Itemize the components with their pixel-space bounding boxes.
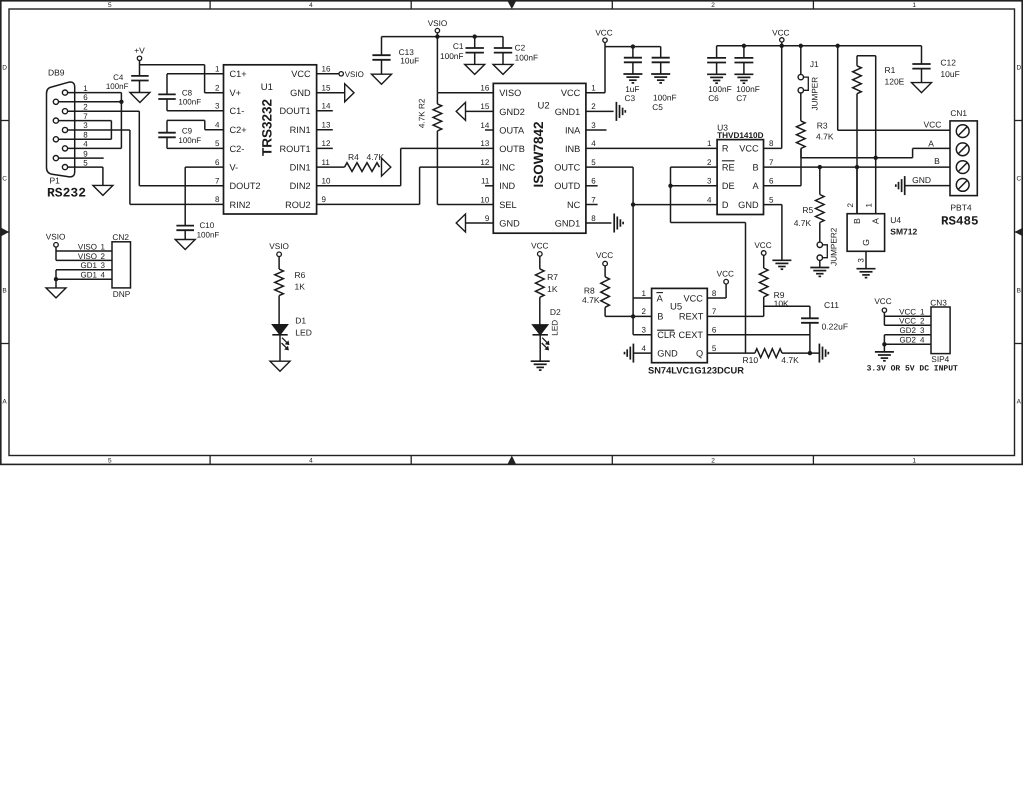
- svg-text:RS232: RS232: [47, 186, 86, 201]
- svg-text:VCC: VCC: [754, 241, 771, 250]
- svg-text:10: 10: [322, 177, 331, 186]
- svg-text:A: A: [657, 293, 664, 303]
- svg-text:VISO: VISO: [78, 242, 97, 251]
- svg-text:Q: Q: [696, 348, 703, 358]
- svg-text:VSIO: VSIO: [428, 19, 448, 28]
- svg-text:D1: D1: [295, 315, 306, 325]
- svg-text:3: 3: [707, 177, 712, 186]
- svg-text:C2+: C2+: [230, 125, 247, 135]
- svg-text:D2: D2: [550, 307, 561, 317]
- svg-text:VCC: VCC: [772, 28, 789, 37]
- svg-text:2: 2: [101, 252, 106, 261]
- svg-text:INA: INA: [565, 125, 581, 135]
- svg-text:SN74LVC1G123DCUR: SN74LVC1G123DCUR: [648, 365, 744, 375]
- svg-text:4: 4: [309, 458, 313, 465]
- svg-text:1: 1: [920, 308, 925, 317]
- svg-text:1: 1: [83, 84, 88, 93]
- svg-text:PBT4: PBT4: [950, 203, 972, 213]
- svg-text:7: 7: [769, 158, 774, 167]
- svg-text:D: D: [2, 64, 7, 71]
- svg-text:GND: GND: [499, 218, 520, 228]
- svg-text:C4: C4: [113, 73, 124, 82]
- svg-text:16: 16: [322, 65, 331, 74]
- svg-text:GD1: GD1: [81, 271, 98, 280]
- svg-text:RS485: RS485: [941, 215, 979, 229]
- svg-text:G: G: [861, 239, 871, 246]
- svg-text:12: 12: [480, 158, 489, 167]
- svg-text:GD2: GD2: [900, 336, 917, 345]
- svg-text:SEL: SEL: [499, 200, 516, 210]
- svg-text:5: 5: [83, 158, 88, 167]
- svg-text:14: 14: [480, 121, 489, 130]
- svg-text:C12: C12: [940, 58, 956, 68]
- svg-text:U2: U2: [538, 101, 550, 112]
- svg-text:A: A: [928, 139, 934, 149]
- svg-text:ISOW7842: ISOW7842: [531, 121, 546, 187]
- svg-text:8: 8: [83, 131, 88, 140]
- svg-text:R1: R1: [885, 65, 896, 75]
- svg-text:GD1: GD1: [81, 261, 98, 270]
- svg-text:V-: V-: [230, 163, 239, 173]
- svg-text:ROUT1: ROUT1: [279, 144, 310, 154]
- svg-text:P1: P1: [50, 176, 61, 186]
- svg-text:C10: C10: [200, 221, 215, 230]
- svg-text:A: A: [1017, 398, 1022, 405]
- svg-text:12: 12: [322, 139, 331, 148]
- svg-text:4: 4: [215, 121, 220, 130]
- svg-text:3: 3: [857, 258, 866, 263]
- svg-text:C1: C1: [453, 41, 464, 51]
- svg-text:16: 16: [480, 84, 489, 93]
- svg-text:GND2: GND2: [499, 107, 525, 117]
- svg-text:7: 7: [215, 177, 220, 186]
- svg-text:REXT: REXT: [679, 312, 704, 322]
- svg-text:JUMPER2: JUMPER2: [830, 227, 839, 266]
- svg-text:U1: U1: [261, 82, 273, 93]
- svg-text:2: 2: [711, 458, 715, 465]
- svg-text:C5: C5: [652, 102, 663, 112]
- svg-text:100nF: 100nF: [440, 51, 464, 61]
- svg-text:A: A: [2, 398, 7, 405]
- svg-text:VCC: VCC: [291, 69, 311, 79]
- svg-text:RE: RE: [722, 162, 735, 172]
- svg-text:4: 4: [309, 2, 313, 9]
- svg-text:2: 2: [591, 102, 596, 111]
- svg-text:B: B: [1017, 287, 1021, 294]
- svg-text:U4: U4: [890, 215, 901, 225]
- svg-text:CN1: CN1: [950, 108, 967, 118]
- svg-text:0.22uF: 0.22uF: [822, 322, 848, 332]
- svg-text:1: 1: [707, 139, 712, 148]
- svg-text:1K: 1K: [547, 284, 558, 294]
- svg-text:14: 14: [322, 102, 331, 111]
- svg-text:VCC: VCC: [595, 29, 612, 38]
- svg-text:THVD1410D: THVD1410D: [717, 131, 764, 140]
- svg-text:10uF: 10uF: [940, 69, 959, 79]
- svg-text:2: 2: [642, 307, 647, 316]
- svg-text:B: B: [752, 162, 758, 172]
- svg-text:VISO: VISO: [499, 88, 521, 98]
- svg-text:RIN2: RIN2: [230, 200, 251, 210]
- svg-text:J1: J1: [810, 59, 819, 69]
- svg-text:1: 1: [642, 289, 647, 298]
- svg-text:C2: C2: [515, 43, 526, 53]
- svg-text:A: A: [871, 218, 881, 224]
- svg-text:15: 15: [322, 84, 331, 93]
- svg-text:R: R: [722, 144, 729, 154]
- svg-text:1: 1: [865, 203, 874, 208]
- svg-text:+V: +V: [134, 46, 145, 56]
- svg-text:B: B: [934, 156, 940, 166]
- svg-text:5: 5: [108, 458, 112, 465]
- svg-text:R7: R7: [547, 272, 558, 282]
- svg-text:3: 3: [642, 326, 647, 335]
- svg-text:NC: NC: [567, 200, 581, 210]
- svg-text:B: B: [657, 312, 663, 322]
- svg-text:LED: LED: [295, 327, 312, 337]
- svg-text:U5: U5: [670, 301, 682, 312]
- svg-text:R10: R10: [743, 355, 759, 365]
- svg-text:C7: C7: [736, 93, 747, 103]
- svg-text:VISO: VISO: [78, 252, 97, 261]
- svg-text:10: 10: [480, 195, 489, 204]
- svg-text:VCC: VCC: [596, 251, 613, 260]
- svg-text:3: 3: [215, 102, 220, 111]
- svg-text:9: 9: [83, 149, 88, 158]
- svg-text:1: 1: [912, 458, 916, 465]
- svg-text:OUTC: OUTC: [554, 163, 580, 173]
- svg-text:4: 4: [920, 336, 925, 345]
- svg-text:DOUT2: DOUT2: [230, 181, 261, 191]
- svg-text:100nF: 100nF: [178, 136, 201, 145]
- svg-text:6: 6: [215, 158, 220, 167]
- svg-text:8: 8: [591, 214, 596, 223]
- svg-text:6: 6: [769, 177, 774, 186]
- svg-text:6: 6: [591, 177, 596, 186]
- svg-text:OUTA: OUTA: [499, 125, 525, 135]
- svg-text:SIP4: SIP4: [931, 354, 949, 364]
- svg-text:VSIO: VSIO: [46, 233, 66, 242]
- svg-text:VCC: VCC: [899, 308, 916, 317]
- svg-text:VCC: VCC: [683, 293, 703, 303]
- svg-text:INB: INB: [565, 144, 580, 154]
- svg-text:CLR: CLR: [657, 330, 676, 340]
- svg-text:11: 11: [322, 158, 331, 167]
- svg-text:C2-: C2-: [230, 144, 245, 154]
- svg-text:6: 6: [83, 93, 88, 102]
- svg-text:100nF: 100nF: [178, 98, 201, 107]
- svg-text:A: A: [752, 181, 759, 191]
- svg-text:2: 2: [215, 84, 220, 93]
- svg-text:4.7K: 4.7K: [816, 132, 834, 142]
- svg-text:100nF: 100nF: [106, 82, 129, 91]
- svg-text:8: 8: [712, 289, 717, 298]
- svg-text:R3: R3: [817, 120, 828, 130]
- svg-text:GND1: GND1: [555, 218, 581, 228]
- svg-text:R8: R8: [584, 285, 595, 295]
- svg-text:3: 3: [591, 121, 596, 130]
- svg-text:100nF: 100nF: [515, 53, 539, 63]
- svg-text:2: 2: [920, 317, 925, 326]
- svg-text:13: 13: [480, 139, 489, 148]
- svg-text:CEXT: CEXT: [678, 330, 703, 340]
- svg-text:DOUT1: DOUT1: [279, 106, 310, 116]
- svg-text:OUTD: OUTD: [554, 181, 580, 191]
- svg-text:DB9: DB9: [48, 68, 65, 78]
- svg-text:4.7K: 4.7K: [794, 218, 812, 228]
- svg-text:D: D: [1016, 64, 1021, 71]
- svg-text:2: 2: [711, 2, 715, 9]
- svg-text:C3: C3: [625, 93, 636, 103]
- svg-text:GND: GND: [290, 88, 311, 98]
- svg-text:VCC: VCC: [874, 297, 891, 306]
- svg-text:1K: 1K: [295, 281, 306, 291]
- svg-text:3: 3: [101, 261, 106, 270]
- svg-text:CN2: CN2: [112, 232, 129, 242]
- svg-text:5: 5: [712, 344, 717, 353]
- svg-text:1: 1: [591, 84, 596, 93]
- svg-text:9: 9: [485, 214, 490, 223]
- svg-text:C1+: C1+: [230, 69, 247, 79]
- svg-text:D: D: [722, 200, 729, 210]
- svg-text:RIN1: RIN1: [290, 125, 311, 135]
- svg-text:DIN2: DIN2: [290, 181, 311, 191]
- svg-text:4: 4: [101, 271, 106, 280]
- svg-text:R4: R4: [348, 152, 359, 162]
- svg-text:C1-: C1-: [230, 106, 245, 116]
- svg-text:11: 11: [481, 177, 490, 186]
- svg-text:9: 9: [322, 195, 327, 204]
- svg-text:ROU2: ROU2: [285, 200, 311, 210]
- svg-text:15: 15: [480, 102, 489, 111]
- svg-text:3.3V OR 5V DC INPUT: 3.3V OR 5V DC INPUT: [867, 364, 958, 373]
- svg-text:VSIO: VSIO: [345, 70, 364, 79]
- svg-text:1: 1: [215, 65, 220, 74]
- svg-text:VCC: VCC: [923, 120, 941, 130]
- svg-text:VCC: VCC: [531, 241, 548, 250]
- svg-text:4: 4: [707, 195, 712, 204]
- svg-text:VCC: VCC: [899, 317, 916, 326]
- svg-text:7: 7: [83, 112, 88, 121]
- svg-text:R6: R6: [295, 270, 306, 280]
- svg-text:10uF: 10uF: [400, 55, 419, 65]
- svg-text:INC: INC: [499, 163, 515, 173]
- svg-text:5: 5: [108, 2, 112, 9]
- svg-text:DIN1: DIN1: [290, 163, 311, 173]
- svg-text:10K: 10K: [774, 299, 789, 309]
- svg-text:DE: DE: [722, 181, 735, 191]
- svg-text:2: 2: [707, 158, 712, 167]
- svg-text:4.7K: 4.7K: [582, 295, 600, 305]
- svg-text:B: B: [852, 218, 862, 224]
- svg-text:B: B: [2, 287, 6, 294]
- svg-text:C9: C9: [182, 127, 193, 136]
- svg-text:VCC: VCC: [717, 269, 734, 278]
- svg-text:IND: IND: [499, 181, 515, 191]
- svg-text:7: 7: [591, 195, 596, 204]
- svg-text:C: C: [1016, 175, 1021, 182]
- svg-text:4: 4: [591, 139, 596, 148]
- svg-text:4.7K R2: 4.7K R2: [418, 98, 427, 128]
- svg-text:5: 5: [591, 158, 596, 167]
- svg-text:SM712: SM712: [890, 227, 917, 237]
- svg-text:C: C: [2, 175, 7, 182]
- svg-text:C6: C6: [708, 93, 719, 103]
- svg-text:6: 6: [712, 326, 717, 335]
- svg-text:4.7K: 4.7K: [781, 355, 799, 365]
- svg-text:CN3: CN3: [930, 297, 947, 307]
- svg-text:GND1: GND1: [555, 107, 581, 117]
- svg-text:GND: GND: [738, 200, 759, 210]
- svg-text:C11: C11: [824, 300, 839, 310]
- svg-text:8: 8: [769, 139, 774, 148]
- svg-text:3: 3: [920, 326, 925, 335]
- svg-text:VCC: VCC: [561, 88, 581, 98]
- svg-text:V+: V+: [230, 88, 242, 98]
- svg-text:1: 1: [101, 242, 106, 251]
- svg-text:3: 3: [83, 121, 88, 130]
- svg-text:DNP: DNP: [113, 289, 131, 299]
- svg-text:GD2: GD2: [900, 326, 917, 335]
- svg-text:GND: GND: [912, 175, 931, 185]
- svg-text:5: 5: [769, 195, 774, 204]
- svg-text:4: 4: [83, 140, 88, 149]
- svg-text:120E: 120E: [885, 76, 905, 86]
- svg-text:4: 4: [642, 344, 647, 353]
- svg-text:13: 13: [322, 121, 331, 130]
- svg-text:2: 2: [83, 102, 88, 111]
- svg-text:GND: GND: [657, 348, 678, 358]
- svg-text:7: 7: [712, 307, 717, 316]
- svg-text:8: 8: [215, 195, 220, 204]
- svg-text:100nF: 100nF: [197, 230, 220, 239]
- svg-text:VCC: VCC: [739, 144, 759, 154]
- svg-text:TRS3232: TRS3232: [260, 99, 275, 156]
- svg-text:1: 1: [912, 2, 916, 9]
- svg-text:OUTB: OUTB: [499, 144, 525, 154]
- svg-text:5: 5: [215, 139, 220, 148]
- svg-text:R5: R5: [802, 205, 813, 215]
- svg-text:JUMPER: JUMPER: [811, 77, 820, 111]
- svg-text:VSIO: VSIO: [269, 242, 289, 251]
- svg-text:C8: C8: [182, 88, 193, 97]
- svg-text:4.7K: 4.7K: [367, 152, 385, 162]
- svg-text:2: 2: [846, 203, 855, 208]
- svg-text:LED: LED: [550, 320, 559, 336]
